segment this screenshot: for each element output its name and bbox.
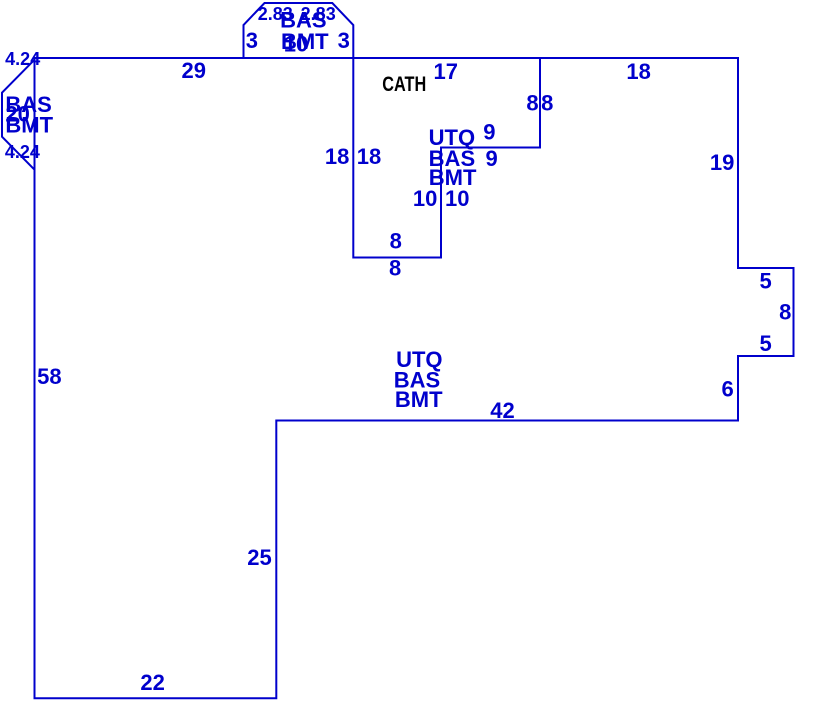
svg-text:10: 10	[413, 186, 437, 211]
svg-text:18: 18	[626, 59, 650, 84]
svg-text:25: 25	[247, 545, 271, 570]
bay: left bay window	[2, 60, 35, 170]
svg-text:18: 18	[325, 144, 349, 169]
svg-text:58: 58	[37, 364, 61, 389]
bay: top bay window	[244, 3, 354, 58]
svg-text:3: 3	[338, 28, 350, 53]
svg-text:5: 5	[759, 331, 771, 356]
svg-text:4.24: 4.24	[5, 49, 40, 69]
svg-text:29: 29	[182, 58, 206, 83]
svg-text:BMT: BMT	[395, 387, 443, 412]
svg-text:18: 18	[357, 144, 381, 169]
svg-text:8: 8	[541, 91, 553, 116]
svg-text:BMT: BMT	[5, 112, 53, 137]
svg-text:8: 8	[779, 300, 791, 325]
svg-text:10: 10	[284, 32, 308, 57]
svg-text:17: 17	[434, 59, 458, 84]
svg-text:5: 5	[759, 269, 771, 294]
svg-text:6: 6	[721, 376, 733, 401]
svg-text:9: 9	[483, 119, 495, 144]
svg-text:10: 10	[445, 186, 469, 211]
svg-text:3: 3	[246, 28, 258, 53]
svg-text:22: 22	[140, 670, 164, 695]
svg-text:8: 8	[390, 228, 402, 253]
svg-text:42: 42	[490, 398, 514, 423]
svg-text:4.24: 4.24	[5, 142, 40, 162]
wall: interior area boundary (CATH region)	[353, 58, 540, 258]
svg-text:CATH: CATH	[382, 73, 426, 97]
svg-text:8: 8	[526, 91, 538, 116]
svg-text:9: 9	[485, 146, 497, 171]
svg-text:19: 19	[710, 150, 734, 175]
svg-text:8: 8	[389, 255, 401, 280]
